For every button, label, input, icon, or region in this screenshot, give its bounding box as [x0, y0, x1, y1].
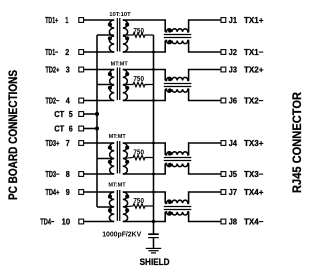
capacitor 1000pF/2KV: [102, 229, 159, 238]
wire pin 9 to transformer T4 primary top: [84, 191, 115, 193]
svg-text:TD2+: TD2+: [45, 65, 59, 75]
wire pin 7 to transformer T3 primary top: [84, 142, 115, 144]
junction termination bus at y=221.5: [152, 220, 156, 224]
junction termination bus at y=192: [152, 191, 155, 194]
common-mode choke L1: [164, 29, 192, 44]
pin 5 CT (PC board): [54, 109, 83, 119]
svg-text:7: 7: [66, 138, 70, 148]
svg-text:TD4+: TD4+: [45, 187, 59, 197]
resistor 750 (channel 1): [123, 28, 154, 37]
pin J5 TX3- (RJ45): [221, 169, 264, 179]
pin 2 TD1- (PC board): [45, 47, 83, 57]
svg-text:J4: J4: [229, 138, 237, 148]
common-mode choke L2: [164, 77, 192, 92]
wire choke L2 to pin J3: [189, 70, 221, 81]
svg-text:750: 750: [133, 149, 144, 156]
wire pin 1 to transformer T1 primary top: [84, 19, 115, 21]
resistor 750 (channel 3): [123, 149, 154, 159]
svg-text:TX1−: TX1−: [244, 47, 264, 57]
svg-text:750: 750: [133, 198, 144, 205]
svg-text:TX3+: TX3+: [244, 138, 264, 148]
svg-text:TD3−: TD3−: [45, 169, 59, 179]
wire transformer T1 secondary bottom to choke: [123, 41, 165, 53]
pin 9 TD4+ (PC board): [45, 187, 83, 197]
svg-text:J2: J2: [229, 47, 237, 57]
wire pin 3 to transformer T2 primary top: [84, 69, 115, 71]
common-mode choke L4: [164, 200, 192, 215]
svg-text:750: 750: [133, 76, 144, 83]
svg-text:J7: J7: [229, 187, 237, 197]
svg-text:J1: J1: [229, 15, 237, 25]
ground SHIELD: [140, 248, 170, 268]
pin 10 TD4- (PC board): [40, 217, 83, 227]
pin J3 TX2+ (RJ45): [221, 65, 264, 75]
wire transformer T2 secondary top to choke: [123, 70, 165, 81]
svg-text:TD1−: TD1−: [45, 47, 58, 57]
pin J4 TX3+ (RJ45): [221, 138, 264, 148]
wire choke L4 to pin J8: [189, 212, 221, 222]
svg-text:J6: J6: [229, 96, 237, 106]
pin J1 TX1+ (RJ45): [221, 15, 264, 25]
wire choke L4 to pin J7: [189, 192, 221, 203]
wire choke L2 to pin J6: [189, 89, 221, 100]
wire pin 10 to transformer T4 primary bottom: [84, 221, 115, 223]
wire transformer T2 primary center tap to bus: [97, 84, 114, 86]
svg-text:3: 3: [66, 65, 70, 75]
transformer T1 (10T:10T): [108, 12, 132, 52]
svg-text:1000pF/2KV: 1000pF/2KV: [102, 229, 141, 238]
wire choke L3 to pin J4: [189, 143, 221, 155]
svg-text:J8: J8: [229, 217, 237, 227]
pin 1 TD1+ (PC board): [45, 15, 83, 25]
svg-text:9: 9: [66, 187, 70, 197]
wire transformer T3 primary center tap to bus: [97, 158, 114, 160]
pin J2 TX1- (RJ45): [221, 47, 264, 57]
wire transformer T3 secondary bottom to choke: [123, 164, 165, 175]
svg-text:8: 8: [66, 169, 70, 179]
svg-text:TX3−: TX3−: [244, 169, 264, 179]
junction termination bus at y=174: [152, 173, 155, 176]
wire pin 2 to transformer T1 primary bottom: [84, 51, 115, 53]
svg-text:TX4+: TX4+: [244, 187, 264, 197]
svg-text:TD1+: TD1+: [45, 15, 58, 25]
svg-text:MT:MT: MT:MT: [111, 62, 129, 68]
wire transformer T1 secondary top to choke: [123, 20, 165, 32]
pin 3 TD2+ (PC board): [45, 65, 83, 75]
junction termination bus at y=52: [152, 51, 155, 54]
wire pin 6 to bus: [84, 128, 97, 130]
wire transformer T4 secondary top to choke: [123, 192, 165, 203]
wire transformer T4 secondary bottom to choke: [123, 212, 165, 222]
svg-text:2: 2: [65, 47, 69, 57]
svg-text:TD2−: TD2−: [45, 96, 59, 106]
svg-text:PC BOARD CONNECTIONS: PC BOARD CONNECTIONS: [8, 70, 20, 200]
junction pin 5: [95, 112, 99, 116]
wire pin 8 to transformer T3 primary bottom: [84, 173, 115, 175]
pin 7 TD3+ (PC board): [45, 138, 83, 148]
svg-text:J5: J5: [229, 169, 237, 179]
svg-text:10: 10: [62, 217, 71, 227]
pin 8 TD3- (PC board): [45, 169, 83, 179]
wire choke L1 to pin J1: [189, 20, 221, 32]
svg-text:5: 5: [69, 109, 73, 119]
wire choke L3 to pin J5: [189, 164, 221, 175]
wire transformer T4 primary center tap to bus: [97, 206, 114, 208]
svg-text:CT: CT: [54, 109, 65, 119]
wire transformer T2 secondary bottom to choke: [123, 89, 165, 100]
svg-text:TX2+: TX2+: [244, 65, 264, 75]
svg-text:TD4−: TD4−: [40, 217, 54, 227]
pin J6 TX2- (RJ45): [221, 96, 264, 106]
svg-text:TX4−: TX4−: [244, 217, 264, 227]
pin J8 TX4- (RJ45): [221, 217, 264, 227]
svg-text:RJ45 CONNECTOR: RJ45 CONNECTOR: [292, 91, 304, 193]
pin 4 TD2- (PC board): [45, 96, 83, 106]
wire transformer T3 secondary top to choke: [123, 143, 165, 155]
junction termination bus at y=69.5: [152, 68, 155, 71]
termination bus wire (resistors common node to capacitor): [153, 35, 155, 234]
svg-text:10T:10T: 10T:10T: [109, 12, 131, 18]
svg-text:1: 1: [65, 15, 68, 25]
svg-text:TD3+: TD3+: [45, 138, 59, 148]
pin J7 TX4+ (RJ45): [221, 187, 264, 197]
label PC BOARD CONNECTIONS: [8, 70, 20, 200]
wire pin 4 to transformer T2 primary bottom: [84, 100, 115, 102]
svg-text:6: 6: [69, 124, 73, 134]
svg-text:J3: J3: [229, 65, 237, 75]
junction termination bus at y=100.5: [152, 99, 155, 102]
common-mode choke L3: [164, 152, 192, 167]
wire choke L1 to pin J2: [189, 41, 221, 53]
svg-text:750: 750: [133, 28, 144, 35]
junction pin 6: [95, 126, 99, 130]
wire transformer T1 primary center tap to bus: [97, 34, 114, 36]
label RJ45 CONNECTOR: [292, 91, 304, 193]
transformer T3 (MT:MT): [108, 134, 129, 174]
svg-text:CT: CT: [54, 124, 65, 134]
resistor 750 (channel 2): [123, 76, 154, 87]
transformer T2 (MT:MT): [108, 62, 129, 101]
wire pin 5 to bus: [84, 113, 97, 115]
wire capacitor to ground: [153, 238, 155, 248]
resistor 750 (channel 4): [123, 198, 154, 209]
pin 6 CT (PC board): [54, 124, 83, 134]
center-tap bus wire (pins 5,6): [96, 35, 98, 207]
svg-text:SHIELD: SHIELD: [140, 257, 170, 268]
svg-text:TX1+: TX1+: [244, 15, 264, 25]
junction termination bus at y=143: [152, 142, 155, 145]
transformer T4 (MT:MT): [108, 183, 129, 222]
svg-text:MT:MT: MT:MT: [109, 134, 127, 140]
svg-text:4: 4: [66, 96, 70, 106]
svg-text:MT:MT: MT:MT: [108, 183, 126, 189]
svg-text:TX2−: TX2−: [244, 96, 264, 106]
